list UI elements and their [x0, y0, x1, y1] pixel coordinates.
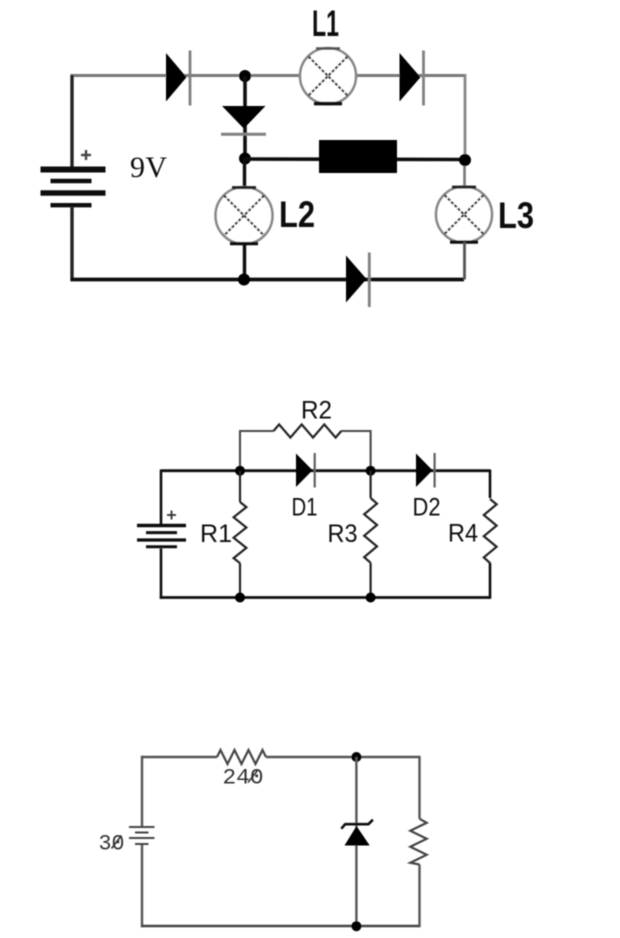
wire: right vertical of circuit 3 — [418, 756, 420, 927]
battery 9V: plate 2 (short) — [51, 179, 92, 184]
value label 30 (slashed zero) — [99, 831, 125, 857]
lamp L2 — [216, 187, 273, 244]
wire: top rail of circuit 3 (right segment) — [266, 756, 420, 758]
battery 30: plate 3 long — [129, 837, 155, 839]
svg-text:D1: D1 — [292, 493, 318, 521]
wire: bottom rail of circuit 3 — [141, 925, 420, 927]
diode (bottom rail, pointing right) — [346, 253, 369, 308]
battery 9V: plate 1 (long, positive) — [41, 167, 106, 173]
battery 9V: plate 3 (long) — [41, 190, 106, 195]
junction node at top of blackout diode — [239, 70, 251, 82]
battery 30: plate 4 short — [135, 843, 149, 845]
label L2 — [279, 194, 315, 235]
wire: right vertical of circuit 2 — [489, 470, 492, 599]
diode (vertical, pointing down) — [221, 76, 266, 159]
battery 30: plate 1 long — [129, 826, 155, 828]
svg-text:D2: D2 — [413, 493, 441, 521]
wire: zener branch vertical — [355, 757, 357, 926]
wire: bottom rail — [71, 278, 465, 282]
wire: bottom rail of circuit 2 — [160, 596, 490, 599]
battery 9V: plus sign — [81, 150, 91, 160]
lamp L1 — [300, 48, 356, 104]
diode (top right, after L1) — [400, 51, 424, 106]
wire: left vertical from battery bottom to bottom rail — [70, 208, 73, 282]
label L1 — [312, 3, 339, 44]
zener diode (cathode bar with bent ends) — [341, 820, 373, 829]
battery (circuit 2): plate 1 long — [137, 524, 186, 527]
resistor R4 (vertical zigzag) — [484, 499, 497, 563]
battery (circuit 2): plate 3 long — [137, 538, 186, 541]
svg-text:L1: L1 — [312, 3, 339, 44]
wire: L3 top lead — [463, 160, 466, 187]
wire: L2 bottom lead — [243, 243, 246, 280]
diode D2 — [416, 453, 435, 488]
label D1 — [292, 493, 318, 521]
junction node A (top of R1) — [235, 466, 245, 476]
wire: top rail of circuit 3 (left segment to resistor) — [142, 756, 217, 758]
wire: R2 bypass loop — [240, 431, 371, 470]
value label 9V — [130, 151, 167, 184]
battery (circuit 2): plate 4 short — [146, 545, 177, 548]
resistor (right, vertical zigzag) — [410, 819, 426, 865]
svg-text:R2: R2 — [301, 396, 332, 424]
wire: top rail from battery + to top-right corner — [72, 76, 465, 78]
junction node L2 bottom on bottom rail — [238, 274, 250, 286]
svg-text:R4: R4 — [448, 520, 478, 548]
wire: left vertical battery bottom to bottom rail — [160, 549, 163, 599]
battery (circuit 2): plate 2 short — [146, 531, 177, 534]
junction node right end of middle rail — [459, 154, 471, 166]
resistor 240 (horizontal zigzag) — [217, 750, 266, 764]
resistor R2 (horizontal zigzag) — [274, 424, 342, 437]
battery (circuit 2): plus sign — [167, 511, 176, 520]
blacked-out component (filled rectangle) on middle rail — [319, 140, 397, 173]
wire: L3 bottom lead — [463, 242, 466, 280]
svg-text:240: 240 — [223, 766, 264, 791]
svg-text:R3: R3 — [328, 520, 358, 548]
junction node R3 bottom — [366, 593, 376, 603]
junction node R1 bottom — [235, 593, 245, 603]
battery 9V: plate 4 (short, negative) — [51, 203, 92, 207]
junction node zener bottom — [351, 921, 361, 931]
wire: right vertical from top-right corner to L3 branch node — [464, 74, 467, 160]
value label 240 (slashed zero) — [223, 766, 264, 791]
wire: left vertical battery bottom to bottom rail — [141, 845, 143, 927]
wire: left vertical to battery top — [160, 470, 163, 525]
svg-text:L2: L2 — [279, 194, 315, 235]
svg-text:R1: R1 — [200, 520, 232, 548]
svg-text:L3: L3 — [498, 195, 534, 236]
wire: middle rail — [245, 157, 465, 161]
wire: left vertical of circuit 3 to battery — [141, 756, 143, 826]
battery 30: plate 2 short — [135, 832, 149, 834]
label R1 — [200, 520, 232, 548]
label R3 — [328, 520, 358, 548]
label D2 — [413, 493, 441, 521]
wire: left vertical from top rail down to battery top plate — [70, 75, 73, 168]
junction node B (top of R3) — [366, 466, 376, 476]
diode (top left, anode to battery) — [166, 51, 190, 106]
diode D1 — [296, 453, 315, 488]
wire: L2 top lead — [243, 158, 246, 188]
zener diode triangle (pointing up) — [345, 826, 370, 846]
svg-text:9V: 9V — [130, 151, 167, 184]
label R4 — [448, 520, 478, 548]
label L3 — [498, 195, 534, 236]
junction node left end of middle rail — [239, 153, 251, 165]
resistor R1 (vertical zigzag) with leads — [234, 471, 247, 598]
label R2 — [301, 396, 332, 424]
junction node zener top — [351, 752, 361, 762]
resistor R3 (vertical zigzag) with leads — [364, 471, 377, 598]
svg-text:30: 30 — [99, 831, 125, 857]
lamp L3 — [436, 187, 492, 243]
wire: top rail of circuit 2 — [161, 469, 490, 472]
